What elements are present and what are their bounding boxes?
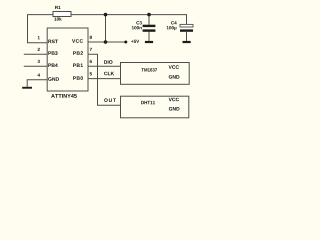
pin number 6 [90, 60, 92, 63]
label ATTINY45 [51, 94, 77, 98]
pin number 3 [38, 60, 40, 63]
ground (C4) [183, 41, 191, 43]
capacitor C3 bottom plate [143, 29, 156, 31]
pin name PB3 [48, 51, 57, 55]
TM1637 module box [121, 63, 190, 85]
wire pin8 to +5V terminal [88, 41, 125, 43]
pin name PB1 [73, 64, 83, 67]
TM1637 pin GND [169, 75, 180, 79]
label +5V [131, 40, 139, 43]
pin number 5 [90, 72, 92, 75]
pin number 4 [38, 73, 40, 76]
DHT11 pin VCC [169, 98, 179, 102]
label 100n [132, 26, 142, 29]
IC U1 ATTINY45 box [47, 28, 88, 91]
junction node rail/C3 [147, 13, 151, 17]
wire pin3 stub [24, 65, 47, 67]
label 10k [54, 17, 61, 20]
resistor R1 body [53, 12, 71, 17]
node DIO label [104, 60, 112, 64]
wire RST net: pin1 left and up to R1 [28, 15, 54, 43]
wire rail from R1 to C4 corner [71, 15, 187, 25]
node +5V terminal dot [124, 41, 127, 44]
pin name VCC [72, 39, 83, 43]
label TM1637 [141, 68, 157, 71]
capacitor C3 top plate [143, 25, 156, 27]
pin name GND [48, 77, 59, 81]
node OUT label [104, 98, 116, 102]
pin number 8 [90, 36, 92, 39]
pin number 1 [38, 36, 40, 39]
wire pin5 CLK to TM1637 [88, 78, 121, 80]
label C3 [136, 21, 142, 24]
DHT11 module box [121, 96, 189, 118]
pin name RST [48, 40, 58, 44]
label R1 [55, 6, 60, 9]
label C4 [171, 21, 177, 24]
DHT11 pin GND [169, 107, 180, 111]
TM1637 pin VCC [169, 65, 179, 69]
capacitor C4 bottom plate [180, 29, 193, 31]
junction node rail/VCC drop [104, 13, 108, 17]
capacitor C4 top plate (electrolytic, hollow) [180, 24, 193, 27]
label 100u [167, 26, 177, 30]
node CLK label [104, 72, 114, 76]
pin name PB4 [48, 64, 57, 67]
wire C3 lower stem [148, 32, 150, 41]
wire pin6 DIO to TM1637 [88, 65, 121, 67]
wire VCC drop to pin 8 row [105, 15, 107, 42]
ground (MCU pin4) [22, 87, 32, 89]
pin number 7 [90, 48, 92, 51]
pin name PB2 [73, 51, 83, 54]
pin name PB0 [73, 76, 83, 80]
wire C3 branch drop [148, 15, 150, 25]
wire pin7 to DHT11 OUT [88, 54, 121, 105]
label DHT11 [141, 101, 155, 104]
wire pin2 stub [24, 53, 47, 55]
ground (C3) [145, 41, 153, 43]
pin number 2 [38, 48, 40, 51]
junction node pin8 wire [104, 40, 108, 44]
wire C4 lower stem [186, 32, 188, 41]
wire pin4 to ground [27, 80, 47, 87]
